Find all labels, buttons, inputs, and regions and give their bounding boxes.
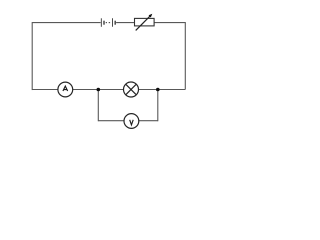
battery B1: dash 2: [109, 22, 110, 24]
voltmeter V1: label V: [130, 120, 134, 125]
battery B1: cell 1 short plate: [103, 21, 105, 25]
wire: lamp to bottom-right corner (through node B2): [139, 89, 186, 91]
lamp L1: circle: [124, 82, 139, 97]
battery B1: dash 1: [106, 22, 107, 24]
wire: voltmeter branch right vertical: [157, 90, 159, 122]
battery B1: cell 1 long plate: [100, 18, 102, 27]
wire: voltmeter right to branch: [139, 120, 158, 122]
lamp L1: cross stroke 2: [126, 84, 137, 95]
battery B1: cell 2 short plate: [114, 21, 116, 25]
wire: top-left horizontal to battery: [32, 22, 101, 24]
ammeter A1: circle: [58, 82, 73, 97]
wire: branch horizontal to voltmeter left: [98, 120, 124, 122]
node B1 junction dot: [97, 88, 101, 92]
lamp L1: cross stroke 1: [126, 84, 137, 95]
wire: voltmeter branch left vertical: [97, 90, 99, 122]
wire: ammeter to lamp (through node B1): [73, 89, 124, 91]
wire: rheostat to top-right corner: [154, 22, 185, 24]
voltmeter V1: circle: [124, 114, 139, 129]
wire: battery to rheostat: [116, 22, 134, 24]
rheostat R1: arrow shaft: [136, 16, 151, 31]
rheostat R1: body: [135, 18, 155, 26]
battery B1: cell 2 long plate: [112, 18, 114, 27]
wire: left vertical: [31, 22, 33, 90]
wire: right vertical: [184, 22, 186, 89]
wire: bottom-left to ammeter: [32, 89, 58, 91]
rheostat R1: arrowhead: [149, 14, 153, 18]
ammeter A1: label A: [63, 86, 68, 91]
node B2 junction dot: [156, 88, 160, 92]
